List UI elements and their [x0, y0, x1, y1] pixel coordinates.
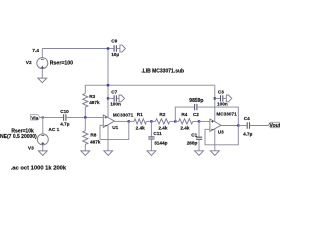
resistor R8: [83, 117, 88, 150]
junction: C3 tap: [214, 97, 216, 99]
capacitor C3: [215, 95, 227, 101]
svg-text:C1: C1: [191, 133, 197, 138]
svg-text:268p: 268p: [187, 141, 198, 146]
wire: U1 V- to ground: [107, 125, 109, 151]
port arrow at C3: [226, 95, 232, 102]
wire: top rail from V2 to C9 junction: [42, 48, 108, 50]
svg-text:C7: C7: [111, 90, 117, 95]
svg-text:2.4k: 2.4k: [136, 125, 146, 130]
svg-text:C10: C10: [60, 109, 69, 114]
junction: U3 out: [237, 124, 239, 126]
voltage source V3: [37, 134, 48, 145]
svg-text:U1: U1: [112, 125, 118, 130]
junction: V3 tap: [42, 116, 44, 118]
junction: R2/R4/C2: [174, 120, 176, 122]
resistor R1: [129, 119, 152, 124]
svg-text:MC33071: MC33071: [216, 112, 237, 117]
wire: U1 feedback loop: [100, 121, 129, 139]
svg-text:Rser=100: Rser=100: [50, 60, 73, 66]
svg-text:100n: 100n: [217, 102, 228, 107]
svg-text:C9: C9: [111, 39, 117, 44]
svg-text:3144p: 3144p: [154, 141, 167, 146]
svg-text:2.4k: 2.4k: [158, 125, 168, 130]
svg-text:V3: V3: [28, 145, 34, 151]
wire: Via tag to C10: [40, 116, 63, 118]
wire: U3 output: [221, 125, 238, 127]
net tag Via: [31, 115, 41, 122]
junction: R1/R2/C11: [150, 120, 152, 122]
junction: R3/R8/C10 node: [84, 116, 86, 118]
svg-text:10µ: 10µ: [111, 52, 119, 57]
svg-text:C11: C11: [153, 131, 162, 136]
wire: rail drop to U3 V+ pin: [214, 85, 216, 121]
svg-text:R4: R4: [181, 112, 187, 117]
capacitor C10: [64, 114, 104, 120]
svg-text:.ac oct 1000 1k 200k: .ac oct 1000 1k 200k: [11, 165, 67, 171]
wire: V+ vertical rail down to U1 V+ pin: [107, 49, 109, 118]
svg-text:9859p: 9859p: [189, 98, 203, 104]
port arrow at C7: [119, 95, 125, 102]
capacitor C4: [238, 122, 268, 128]
svg-text:C3: C3: [218, 89, 224, 94]
svg-text:V2: V2: [26, 60, 32, 66]
resistor R3: [83, 85, 88, 117]
svg-text:C2: C2: [193, 112, 199, 117]
wire: V2 top stub: [41, 49, 43, 58]
ground (V2): [38, 78, 47, 83]
capacitor C7: [108, 95, 119, 101]
wire: V3 to ground: [42, 145, 44, 151]
ground (R8): [81, 151, 90, 156]
wire: V2 to ground stub: [41, 69, 43, 79]
svg-text:100n: 100n: [110, 101, 121, 106]
svg-text:4.7µ: 4.7µ: [243, 132, 253, 137]
resistor R4: [175, 119, 199, 124]
svg-text:Via: Via: [31, 115, 38, 121]
svg-text:AC 1: AC 1: [48, 127, 59, 133]
svg-text:Vout: Vout: [269, 123, 280, 129]
svg-text:R3: R3: [89, 94, 95, 99]
op-amp U3: [210, 119, 221, 132]
svg-text:467k: 467k: [89, 100, 100, 105]
svg-text:R1: R1: [137, 112, 143, 117]
svg-text:R2: R2: [159, 112, 165, 117]
net tag Vout: [268, 122, 281, 129]
ground (C1): [195, 151, 204, 156]
svg-text:MC33071: MC33071: [113, 112, 134, 117]
svg-text:R8: R8: [90, 132, 96, 137]
svg-text:SINE(7 0.5 20000): SINE(7 0.5 20000): [0, 134, 37, 140]
ground (V3): [38, 151, 47, 156]
wire: U1 output: [115, 120, 129, 122]
svg-text:7.4: 7.4: [32, 48, 39, 54]
capacitor C1: [196, 121, 202, 150]
wire: drop to V3: [42, 117, 44, 133]
junction: rail x C9: [107, 47, 109, 49]
junction: U1 out: [128, 120, 130, 122]
port arrow at C9: [120, 45, 126, 52]
svg-text:.LIB MC33071.sub: .LIB MC33071.sub: [141, 69, 184, 75]
capacitor C2 feedback path: [175, 104, 238, 126]
junction: rail x mid rail: [107, 84, 109, 86]
ground (U1): [104, 151, 113, 156]
wire: to U3 +in: [199, 120, 210, 122]
wire: mid horizontal rail: [85, 84, 215, 86]
resistor R2: [151, 119, 175, 124]
ground (C11): [147, 151, 156, 156]
svg-text:467k: 467k: [90, 139, 101, 144]
svg-text:2.4k: 2.4k: [180, 125, 190, 130]
junction: C7 tap: [107, 97, 109, 99]
voltage source V2: [37, 58, 48, 69]
capacitor C9: [108, 45, 120, 51]
svg-text:U3: U3: [218, 130, 224, 135]
op-amp U1: [103, 115, 114, 128]
junction: R4/C1/U3: [198, 120, 200, 122]
svg-text:C4: C4: [244, 116, 250, 121]
ground (U3): [210, 151, 219, 156]
svg-text:4.7µ: 4.7µ: [60, 122, 70, 127]
capacitor C11: [148, 121, 154, 150]
wire: U3 feedback loop: [205, 126, 238, 145]
wire: U3 V- to ground: [214, 129, 216, 151]
